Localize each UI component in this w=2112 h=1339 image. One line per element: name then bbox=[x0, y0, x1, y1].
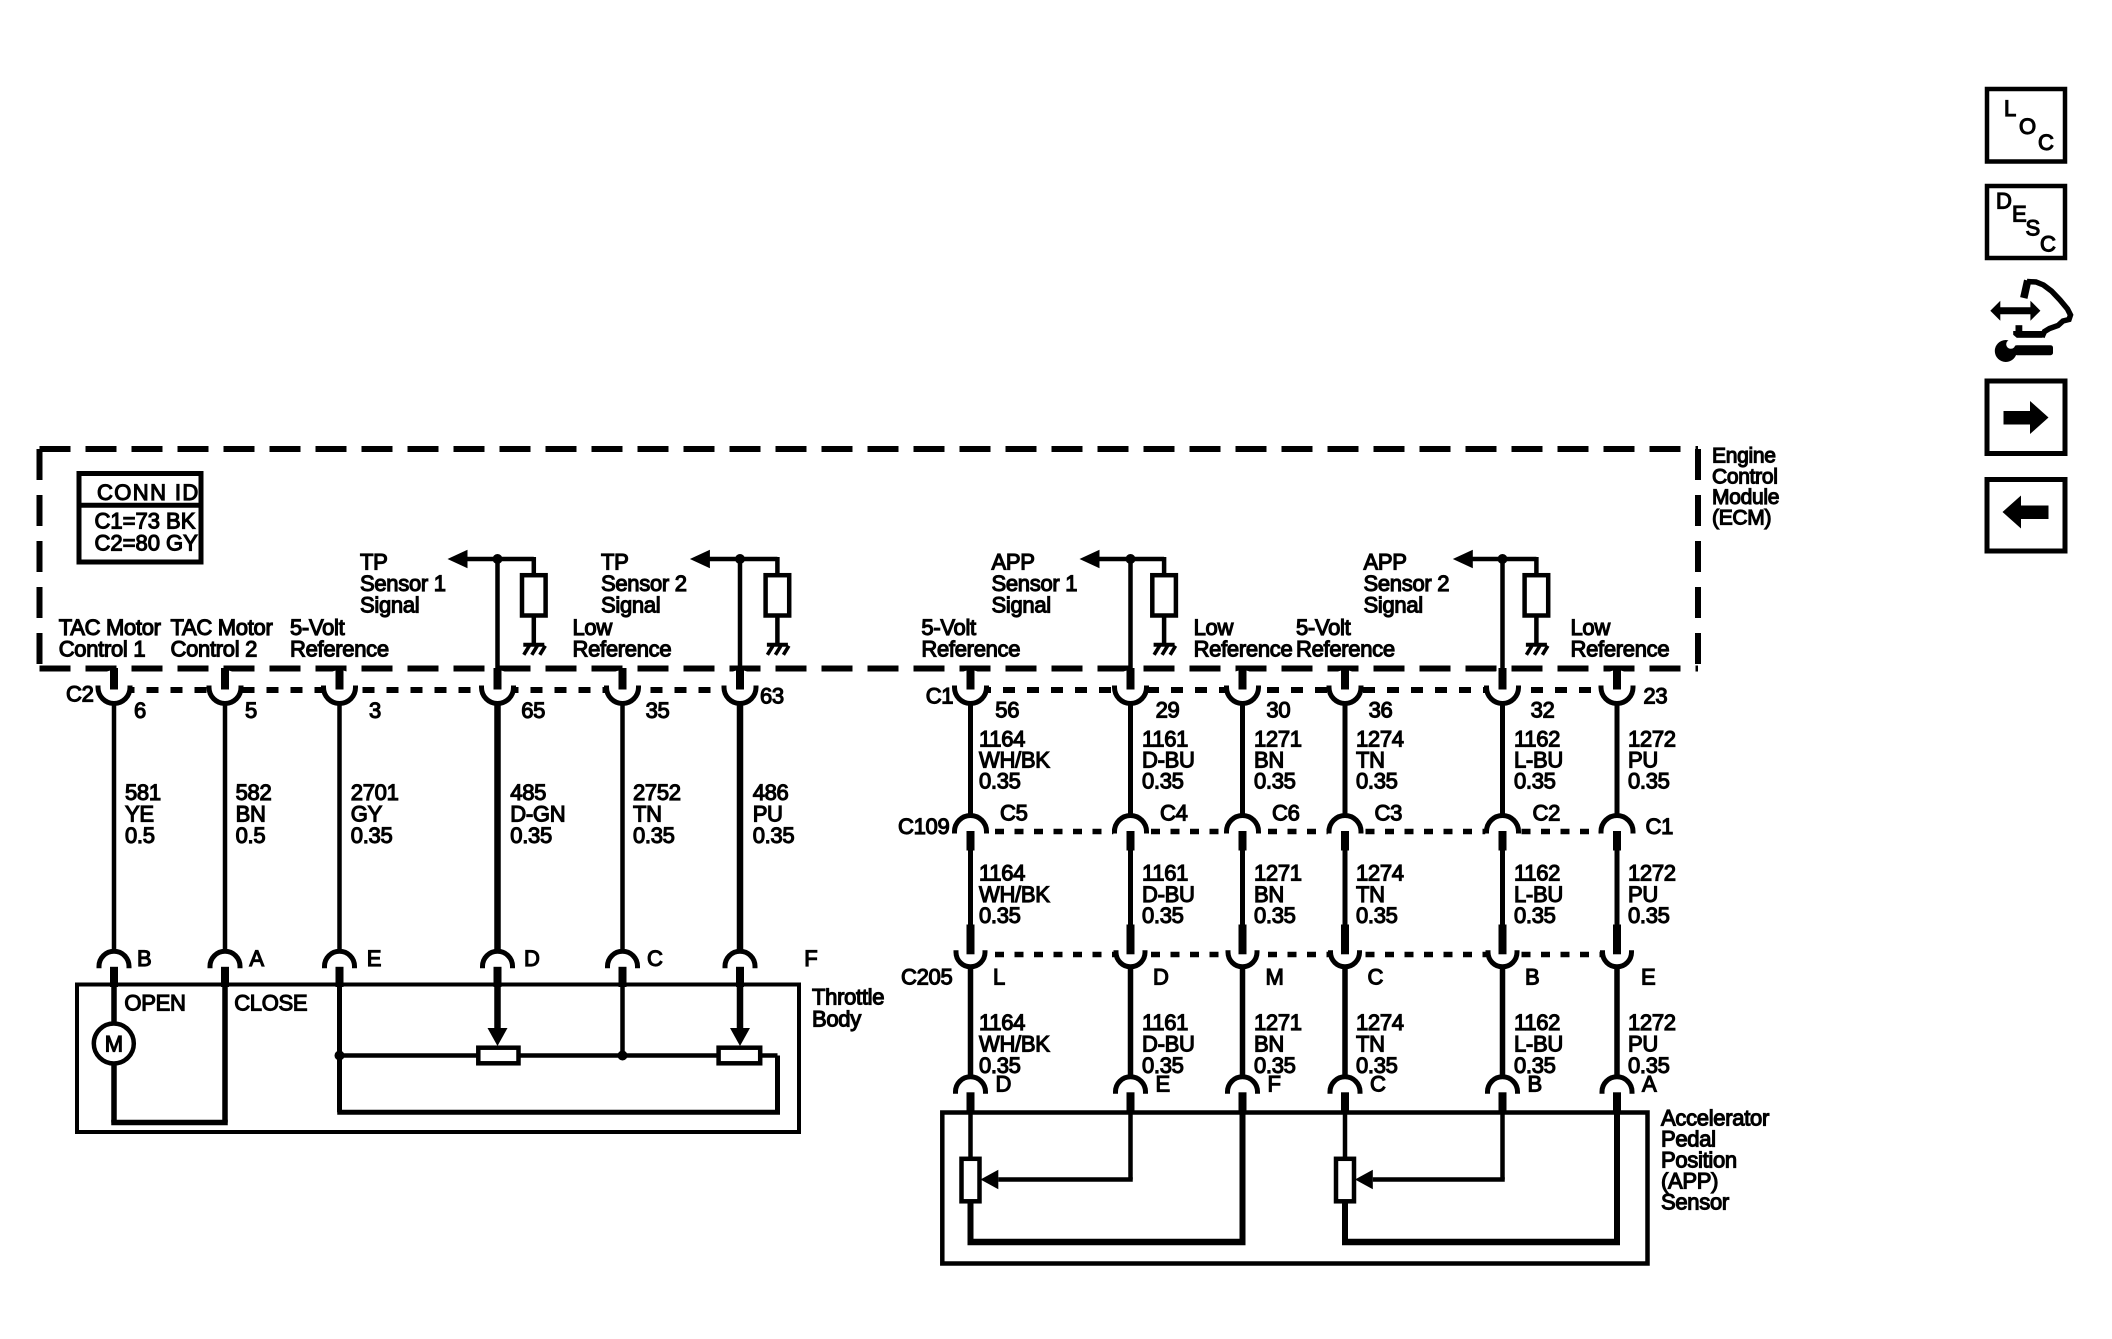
svg-text:C3: C3 bbox=[1375, 801, 1403, 826]
connector pin C2-35 bbox=[605, 668, 640, 705]
svg-text:6: 6 bbox=[134, 698, 146, 723]
svg-text:O: O bbox=[2019, 114, 2036, 139]
svg-text:0.35: 0.35 bbox=[979, 769, 1021, 794]
wire segment pin 29 to C109 bbox=[1128, 703, 1133, 816]
ECM name label bbox=[1712, 445, 1779, 530]
wire resistor TP Sensor 1 (R1) to ground bbox=[532, 616, 537, 645]
wire label 1162 L-BU (upper) bbox=[1514, 727, 1563, 794]
wire 582 BN (pin 5 to throttle body) bbox=[223, 703, 228, 952]
svg-text:B: B bbox=[1528, 1072, 1542, 1097]
connector pin C205-M bbox=[1227, 925, 1259, 969]
label TAC Motor Control 2 bbox=[171, 615, 273, 661]
svg-text:Control 2: Control 2 bbox=[171, 636, 258, 661]
arrow APP2 wiper bbox=[1355, 1170, 1373, 1189]
svg-text:56: 56 bbox=[995, 698, 1019, 723]
wire pin D to potentiometer 1 bbox=[968, 1112, 973, 1159]
svg-text:Signal: Signal bbox=[601, 593, 660, 618]
wire segment 1271 C205 to APP sensor bbox=[1240, 967, 1246, 1078]
svg-text:C109: C109 bbox=[898, 814, 949, 839]
wire pin B wiper feed bbox=[1373, 1112, 1505, 1180]
wire label 1271 BN (upper) bbox=[1254, 727, 1302, 794]
wire segment 1162 C205 to APP sensor bbox=[1500, 967, 1506, 1078]
pin labels APP row bbox=[996, 1072, 1658, 1097]
wire pin D wiper bbox=[494, 985, 501, 1030]
resistor APP Sensor 2 (R4) bbox=[1525, 575, 1549, 615]
pin labels C109 row bbox=[898, 801, 1673, 840]
svg-text:CLOSE: CLOSE bbox=[234, 991, 307, 1016]
svg-text:5: 5 bbox=[245, 698, 257, 723]
motor M1 bbox=[94, 1024, 134, 1064]
wire label 1164 WH/BK (lower) bbox=[979, 1010, 1050, 1078]
connector pin C2-5 bbox=[208, 668, 243, 705]
wire label 1272 PU (upper) bbox=[1628, 727, 1676, 794]
svg-text:Reference: Reference bbox=[573, 636, 672, 661]
icon vehicle double-arrow bbox=[1990, 281, 2070, 338]
connector pin APP-B bbox=[1486, 1075, 1519, 1113]
svg-text:F: F bbox=[804, 946, 817, 971]
label TAC Motor Control 1 bbox=[59, 615, 161, 661]
svg-text:Sensor: Sensor bbox=[1661, 1189, 1729, 1214]
connector pin C109-C2 bbox=[1485, 814, 1520, 851]
wire 486 PU (pin 63 to throttle body) bbox=[737, 703, 744, 952]
svg-text:0.35: 0.35 bbox=[1142, 903, 1184, 928]
svg-text:D: D bbox=[1996, 189, 2012, 214]
label Low Reference (pin 23) bbox=[1571, 615, 1670, 661]
svg-text:63: 63 bbox=[760, 684, 784, 709]
svg-text:C: C bbox=[2038, 130, 2054, 155]
connector pin C205-L bbox=[955, 925, 987, 969]
wire segment 1271 C109 to C205 bbox=[1240, 850, 1245, 926]
icon DESC box bbox=[1987, 186, 2065, 258]
svg-text:B: B bbox=[137, 946, 151, 971]
svg-text:E: E bbox=[367, 946, 381, 971]
throttle body box bbox=[77, 985, 799, 1133]
svg-text:S: S bbox=[2026, 216, 2040, 241]
svg-text:C: C bbox=[1368, 964, 1384, 989]
label Accelerator Pedal Position (APP) Sensor bbox=[1661, 1105, 1769, 1214]
potentiometer track wire (TP sensors) bbox=[337, 1056, 780, 1113]
wire pin C to potentiometer 2 bbox=[1343, 1112, 1348, 1159]
label 5-Volt Reference (pin 3) bbox=[290, 615, 389, 661]
svg-text:30: 30 bbox=[1266, 698, 1290, 723]
svg-text:L: L bbox=[2004, 96, 2016, 121]
connector pin C1-29 bbox=[1113, 668, 1148, 705]
svg-text:Signal: Signal bbox=[1364, 593, 1423, 618]
svg-text:0.35: 0.35 bbox=[1254, 769, 1296, 794]
wire label 1161 D-BU (middle) bbox=[1142, 861, 1195, 929]
svg-text:C2: C2 bbox=[66, 682, 94, 707]
svg-text:Reference: Reference bbox=[921, 636, 1020, 661]
wire segment 1164 C109 to C205 bbox=[968, 850, 973, 926]
connector pin APP-C bbox=[1329, 1075, 1362, 1113]
resistor TP Sensor 1 (R1) bbox=[522, 575, 546, 615]
connector pin C205-C bbox=[1329, 925, 1361, 969]
signal arrow + bias network TP Sensor 2 (R2) bbox=[690, 550, 778, 576]
svg-text:D: D bbox=[996, 1072, 1012, 1097]
connector pin APP-E bbox=[1114, 1075, 1147, 1113]
wire segment pin 23 to C109 bbox=[1615, 703, 1620, 816]
APP sensor box bbox=[942, 1113, 1647, 1264]
connector pin C2-65 bbox=[480, 668, 515, 705]
svg-text:35: 35 bbox=[646, 698, 670, 723]
svg-text:E: E bbox=[2012, 202, 2026, 227]
svg-text:23: 23 bbox=[1643, 684, 1667, 709]
wire label 1274 TN (middle) bbox=[1356, 861, 1404, 929]
connector pin throttle-C bbox=[606, 950, 639, 987]
pin labels throttle row bbox=[137, 946, 817, 971]
pin labels C1 row bbox=[926, 684, 1668, 723]
connector pin C109-C5 bbox=[953, 814, 988, 851]
wire label 485 D-GN 0.35 bbox=[510, 780, 565, 848]
svg-text:A: A bbox=[249, 946, 264, 971]
connector pin C109-C6 bbox=[1225, 814, 1260, 851]
icon forward arrow box bbox=[1987, 381, 2065, 454]
wire label 1272 PU (lower) bbox=[1628, 1010, 1676, 1078]
arrow APP1 wiper bbox=[981, 1170, 999, 1189]
wire label 1164 WH/BK (upper) bbox=[979, 727, 1050, 794]
signal arrow + bias network APP Sensor 1 (R3) bbox=[1080, 550, 1165, 576]
svg-text:C205: C205 bbox=[901, 964, 952, 989]
svg-text:D: D bbox=[524, 946, 540, 971]
svg-text:Reference: Reference bbox=[290, 636, 389, 661]
connector pin C205-B bbox=[1487, 925, 1519, 969]
svg-text:C4: C4 bbox=[1160, 801, 1188, 826]
connector C2 dotted line bbox=[99, 687, 756, 693]
wire motor to pin A (U loop) bbox=[111, 985, 228, 1123]
node E junction bbox=[335, 1051, 345, 1061]
wire APP Sensor 2 (R4) signal down to pin bbox=[1500, 559, 1505, 673]
connector pin C1-30 bbox=[1225, 668, 1260, 705]
wire label 1274 TN (lower) bbox=[1356, 1010, 1404, 1078]
svg-text:Reference: Reference bbox=[1571, 636, 1670, 661]
wire resistor APP Sensor 2 (R4) to ground bbox=[1534, 616, 1539, 645]
resistor TP sensor 1 track bbox=[478, 1048, 518, 1064]
potentiometer APP1 bbox=[962, 1159, 980, 1202]
svg-text:C1: C1 bbox=[1646, 814, 1674, 839]
wire label 1161 D-BU (upper) bbox=[1142, 727, 1195, 794]
wire label 2701 GY 0.35 bbox=[351, 780, 399, 848]
wire label 1164 WH/BK (middle) bbox=[979, 861, 1050, 929]
wire 485 D-GN (pin 65 to throttle body) bbox=[494, 703, 501, 952]
label Low Reference (pin 30) bbox=[1194, 615, 1293, 661]
wire 2752 TN (pin 35 to throttle body) bbox=[620, 703, 625, 952]
connector pin APP-A bbox=[1601, 1075, 1634, 1113]
wire TP Sensor 1 (R1) signal down to pin bbox=[495, 559, 500, 673]
svg-text:0.35: 0.35 bbox=[1514, 769, 1556, 794]
label 5-Volt Reference (pin 36) bbox=[1296, 615, 1395, 661]
connector pin C1-36 bbox=[1328, 668, 1363, 705]
wire segment pin 32 to C109 bbox=[1500, 703, 1505, 816]
svg-text:C2: C2 bbox=[1533, 801, 1561, 826]
connector pin C2-63 bbox=[723, 668, 758, 705]
svg-text:0.35: 0.35 bbox=[1356, 903, 1398, 928]
connector C205 dashed line bbox=[956, 952, 1632, 958]
wire pin E into box bbox=[337, 985, 342, 1112]
svg-text:29: 29 bbox=[1156, 698, 1180, 723]
svg-text:M: M bbox=[1266, 964, 1284, 989]
svg-text:Control 1: Control 1 bbox=[59, 636, 146, 661]
svg-text:3: 3 bbox=[369, 698, 381, 723]
svg-text:E: E bbox=[1641, 964, 1655, 989]
ground TP Sensor 2 (R2) bbox=[767, 645, 789, 655]
node TP Sensor 2 (R2) junction bbox=[735, 554, 745, 564]
wire segment pin 56 to C109 bbox=[968, 703, 973, 816]
svg-text:0.35: 0.35 bbox=[351, 823, 393, 848]
wire segment 1274 C109 to C205 bbox=[1343, 850, 1348, 926]
svg-text:Signal: Signal bbox=[992, 593, 1051, 618]
connector pin throttle-F bbox=[724, 950, 757, 987]
connector pin APP-D bbox=[954, 1075, 987, 1113]
connector C1 dotted line bbox=[955, 687, 1633, 693]
svg-text:0.35: 0.35 bbox=[1628, 769, 1670, 794]
svg-text:Engine: Engine bbox=[1712, 445, 1776, 468]
connector pin throttle-B bbox=[98, 950, 131, 987]
label TP Sensor 1 Signal bbox=[360, 550, 446, 618]
connector pin C1-56 bbox=[953, 668, 988, 705]
connector pin C1-32 bbox=[1485, 668, 1520, 705]
svg-text:36: 36 bbox=[1369, 698, 1393, 723]
svg-text:E: E bbox=[1156, 1072, 1170, 1097]
wire pin F wiper bbox=[737, 985, 744, 1030]
svg-text:0.5: 0.5 bbox=[236, 823, 266, 848]
svg-text:C1: C1 bbox=[926, 684, 954, 709]
pin labels C2 row bbox=[66, 682, 784, 724]
node APP Sensor 2 (R4) junction bbox=[1498, 554, 1508, 564]
wire pin E wiper feed bbox=[998, 1112, 1132, 1180]
svg-text:D: D bbox=[1153, 964, 1169, 989]
connector pin C109-C3 bbox=[1328, 814, 1363, 851]
arrow TP1 wiper bbox=[488, 1028, 508, 1046]
ground TP Sensor 1 (R1) bbox=[523, 645, 545, 655]
wire label 582 BN 0.5 bbox=[236, 780, 272, 848]
svg-text:A: A bbox=[1642, 1072, 1657, 1097]
connector C109 dashed line bbox=[956, 829, 1632, 835]
resistor TP sensor 2 track bbox=[719, 1048, 761, 1064]
node TP Sensor 1 (R1) junction bbox=[493, 554, 503, 564]
resistor APP Sensor 1 (R3) bbox=[1152, 575, 1176, 615]
wire label 1271 BN (lower) bbox=[1254, 1010, 1302, 1078]
connector pin throttle-D bbox=[481, 950, 514, 987]
wire resistor APP Sensor 1 (R3) to ground bbox=[1162, 616, 1167, 645]
svg-text:0.35: 0.35 bbox=[979, 903, 1021, 928]
icon wrench bbox=[1995, 332, 2053, 362]
svg-text:L: L bbox=[993, 964, 1005, 989]
connector pin C205-D bbox=[1115, 925, 1147, 969]
wire 2701 GY (pin 3 to throttle body) bbox=[337, 703, 342, 952]
wire pot2 low side loop to pin A bbox=[1342, 1112, 1620, 1243]
svg-text:C5: C5 bbox=[1000, 801, 1028, 826]
svg-text:C6: C6 bbox=[1272, 801, 1300, 826]
CONN ID table bbox=[79, 474, 201, 563]
wire label 2752 TN 0.35 bbox=[633, 780, 681, 848]
svg-text:Control: Control bbox=[1712, 466, 1778, 489]
svg-text:0.35: 0.35 bbox=[1628, 903, 1670, 928]
wire resistor TP Sensor 2 (R2) to ground bbox=[775, 616, 780, 645]
svg-text:0.35: 0.35 bbox=[1514, 903, 1556, 928]
label Low Reference (pin 35) bbox=[573, 615, 672, 661]
node C junction bbox=[618, 1051, 628, 1061]
wire segment 1161 C205 to APP sensor bbox=[1128, 967, 1134, 1078]
wire pin C to track bbox=[620, 985, 625, 1056]
svg-text:32: 32 bbox=[1531, 698, 1555, 723]
svg-text:65: 65 bbox=[521, 698, 545, 723]
wire label 1162 L-BU (lower) bbox=[1514, 1010, 1563, 1078]
svg-text:0.35: 0.35 bbox=[1356, 769, 1398, 794]
arrow TP2 wiper bbox=[730, 1028, 750, 1046]
svg-text:Body: Body bbox=[812, 1007, 861, 1032]
wire segment 1272 C109 to C205 bbox=[1615, 850, 1620, 926]
resistor TP Sensor 2 (R2) bbox=[766, 575, 790, 615]
wire APP Sensor 1 (R3) signal down to pin bbox=[1128, 559, 1133, 673]
connector pin C109-C1 bbox=[1600, 814, 1635, 851]
svg-text:0.35: 0.35 bbox=[1142, 769, 1184, 794]
label 5-Volt Reference (pin 56) bbox=[921, 615, 1020, 661]
label Throttle Body bbox=[812, 985, 884, 1032]
wire segment 1162 C109 to C205 bbox=[1500, 850, 1505, 926]
svg-text:OPEN: OPEN bbox=[124, 991, 185, 1016]
connector pin C205-E bbox=[1601, 925, 1633, 969]
svg-text:0.5: 0.5 bbox=[125, 823, 155, 848]
svg-text:0.35: 0.35 bbox=[753, 823, 795, 848]
wire segment 1272 C205 to APP sensor bbox=[1614, 967, 1620, 1078]
svg-text:Reference: Reference bbox=[1194, 636, 1293, 661]
svg-text:C: C bbox=[1370, 1072, 1386, 1097]
connector pin APP-F bbox=[1226, 1075, 1259, 1113]
node APP Sensor 1 (R3) junction bbox=[1126, 554, 1136, 564]
wire segment 1274 C205 to APP sensor bbox=[1342, 967, 1348, 1078]
ground APP Sensor 1 (R3) bbox=[1154, 645, 1176, 655]
wire segment pin 30 to C109 bbox=[1240, 703, 1245, 816]
connector pin C2-3 bbox=[322, 668, 357, 705]
wire label 486 PU 0.35 bbox=[753, 780, 795, 848]
svg-text:Signal: Signal bbox=[360, 593, 419, 618]
signal arrow + bias network TP Sensor 1 (R1) bbox=[448, 550, 534, 576]
svg-text:F: F bbox=[1268, 1072, 1281, 1097]
wire segment 1164 C205 to APP sensor bbox=[968, 967, 974, 1078]
wire 581 YE (pin 6 to throttle body) bbox=[112, 703, 117, 952]
potentiometer APP2 bbox=[1336, 1159, 1354, 1202]
wire label 1271 BN (middle) bbox=[1254, 861, 1302, 929]
signal arrow + bias network APP Sensor 2 (R4) bbox=[1453, 550, 1537, 576]
svg-text:B: B bbox=[1525, 964, 1539, 989]
pin labels C205 row bbox=[901, 964, 1655, 989]
svg-text:C2=80 GY: C2=80 GY bbox=[95, 531, 199, 556]
label APP Sensor 1 Signal bbox=[992, 550, 1078, 618]
svg-text:0.35: 0.35 bbox=[510, 823, 552, 848]
label TP Sensor 2 Signal bbox=[601, 550, 687, 618]
wire TP Sensor 2 (R2) signal down to pin bbox=[738, 559, 743, 673]
connector pin C109-C4 bbox=[1113, 814, 1148, 851]
svg-text:0.35: 0.35 bbox=[1254, 903, 1296, 928]
label APP Sensor 2 Signal bbox=[1364, 550, 1450, 618]
wire segment pin 36 to C109 bbox=[1343, 703, 1348, 816]
svg-text:CONN ID: CONN ID bbox=[97, 480, 200, 505]
connector pin C1-23 bbox=[1600, 668, 1635, 705]
icon LOC box bbox=[1987, 89, 2065, 162]
ECM module dashed outline (Engine Control Module) bbox=[40, 449, 1699, 669]
svg-text:C: C bbox=[2040, 232, 2056, 257]
ground APP Sensor 2 (R4) bbox=[1526, 645, 1548, 655]
wire pot1 low side loop to pin F bbox=[968, 1112, 1246, 1243]
wire label 1274 TN (upper) bbox=[1356, 727, 1404, 794]
wire label 1272 PU (middle) bbox=[1628, 861, 1676, 929]
icon back arrow box bbox=[1987, 480, 2065, 552]
svg-text:Reference: Reference bbox=[1296, 636, 1395, 661]
connector pin C2-6 bbox=[97, 668, 132, 705]
svg-text:(ECM): (ECM) bbox=[1712, 507, 1771, 530]
wire label 1161 D-BU (lower) bbox=[1142, 1010, 1195, 1078]
wire segment 1161 C109 to C205 bbox=[1128, 850, 1133, 926]
svg-text:M: M bbox=[105, 1032, 123, 1057]
wire pin B to motor bbox=[111, 985, 117, 1025]
connector pin throttle-A bbox=[209, 950, 242, 987]
connector pin throttle-E bbox=[323, 950, 356, 987]
wire label 581 YE 0.5 bbox=[125, 780, 161, 848]
svg-text:C: C bbox=[647, 946, 663, 971]
svg-text:0.35: 0.35 bbox=[633, 823, 675, 848]
wire label 1162 L-BU (middle) bbox=[1514, 861, 1563, 929]
